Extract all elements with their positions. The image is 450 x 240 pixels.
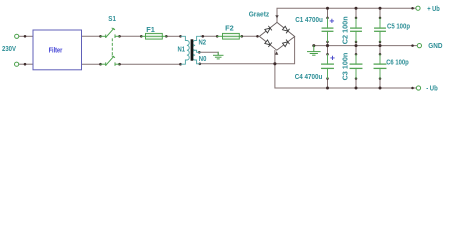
svg-text:N1: N1 [178,47,186,54]
svg-text:C3 100n: C3 100n [342,53,349,81]
svg-text:+ Ub: + Ub [427,6,440,13]
svg-text:C4 4700u: C4 4700u [295,74,323,81]
svg-text:F2: F2 [225,26,234,33]
svg-text:GND: GND [428,43,442,50]
svg-text:C5 100p: C5 100p [387,23,410,30]
svg-text:F1: F1 [146,27,155,34]
svg-text:N0: N0 [199,56,207,63]
svg-text:S1: S1 [108,16,116,23]
svg-text:C1 4700u: C1 4700u [295,17,323,24]
svg-text:C6 100p: C6 100p [386,60,409,67]
svg-text:C2 100n: C2 100n [343,16,350,44]
svg-text:Graetz: Graetz [249,12,270,19]
svg-text:- Ub: - Ub [426,85,438,92]
svg-text:230V: 230V [2,46,16,53]
svg-text:Filter: Filter [49,47,63,54]
svg-text:N2: N2 [199,40,207,47]
